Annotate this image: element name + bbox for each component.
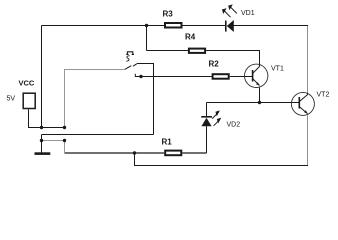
wire ground vertical: [41, 135, 43, 153]
battery source box: [23, 93, 35, 108]
wire VD2 stem lower: [206, 126, 208, 153]
wire R2 left from switch contact: [135, 76, 211, 78]
wire R2 right to VT1 base: [230, 76, 245, 78]
node switch lower contact: [139, 75, 142, 78]
wire top rail right segment: [234, 25, 309, 27]
node battery wire to switch loop: [63, 126, 66, 129]
wire switch upper contact to ground rail: [137, 64, 154, 135]
node R1 bottom branch junction: [133, 151, 136, 154]
wire ground rail horizontal: [42, 134, 154, 136]
wire VT2 emitter vertical: [307, 115, 309, 165]
svg-text:R2: R2: [209, 60, 220, 69]
svg-text:VT1: VT1: [271, 66, 284, 73]
switch lever: [125, 66, 131, 70]
switch S1: [125, 52, 137, 77]
wire ground branch gray horizontal: [42, 140, 65, 142]
wire gray branch vertical to R1: [64, 141, 66, 154]
wire R1 left: [65, 152, 165, 154]
wire top rail left segment: [42, 25, 165, 27]
node junction top rail to R4 branch: [145, 24, 148, 27]
wire battery negative: [29, 109, 65, 127]
wire node line VD2 to VT2 base: [207, 102, 292, 104]
svg-text:VT2: VT2: [317, 92, 330, 99]
transistor VT2: [291, 92, 314, 115]
wire R1 right: [182, 152, 206, 154]
node ground branch: [40, 139, 43, 142]
svg-text:R4: R4: [185, 33, 196, 42]
switch upper fixed contact: [133, 64, 137, 66]
VD2 emission arrows: [212, 112, 218, 118]
resistor R3: [165, 23, 182, 28]
resistor R1: [165, 151, 181, 156]
wire top rail middle segment: [183, 25, 226, 27]
svg-text:5V: 5V: [7, 96, 16, 103]
switch lower fixed contact: [134, 74, 136, 77]
ground: [35, 152, 51, 155]
switch spring S glyph: [126, 56, 129, 61]
svg-text:R1: R1: [162, 138, 173, 147]
wire VT2 collector vertical gray: [307, 26, 309, 93]
wire VD2 stem upper: [206, 103, 208, 117]
transistor VT1: [245, 64, 268, 87]
svg-text:R3: R3: [163, 10, 174, 19]
diode VD2: [201, 110, 221, 126]
wire VT1 emitter vertical: [259, 88, 261, 103]
resistor R2: [213, 74, 229, 79]
node VT1 emitter junction: [258, 101, 261, 104]
wire R4 left: [147, 50, 188, 52]
node battery wire to left vertical: [40, 126, 43, 129]
wire R4 branch vertical: [146, 26, 148, 51]
wire bottom rail: [135, 153, 309, 166]
wire R4 right to VT1 collector: [206, 51, 259, 65]
svg-text:VCC: VCC: [19, 79, 35, 88]
resistor R4: [189, 49, 205, 53]
node gray branch corner: [63, 139, 66, 142]
svg-text:VD1: VD1: [241, 10, 255, 17]
diode VD1: [222, 4, 237, 32]
wire switch loop gray: [65, 70, 125, 128]
svg-text:VD2: VD2: [227, 122, 241, 129]
wire left vertical: [41, 26, 43, 128]
VD1 emission arrows: [223, 10, 230, 17]
switch actuator bracket: [126, 52, 134, 55]
